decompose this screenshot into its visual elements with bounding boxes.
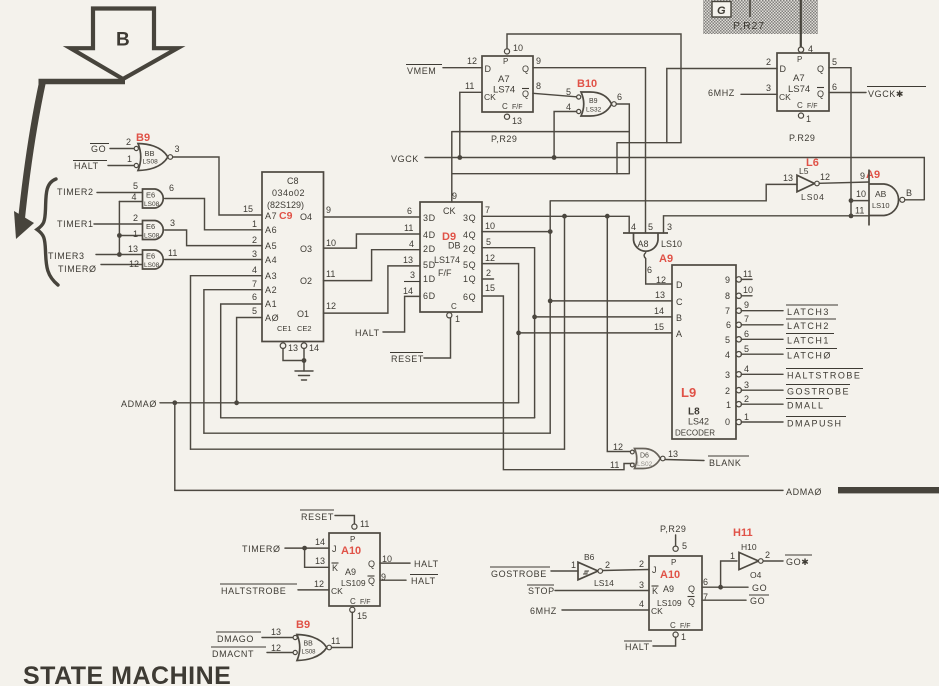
wire D6 out to BLANK bbox=[665, 460, 704, 461]
svg-text:O4: O4 bbox=[300, 212, 312, 222]
pin 13 output bubble D6 bbox=[661, 456, 666, 461]
svg-text:7: 7 bbox=[485, 205, 490, 215]
junction Q5/A9 pin10 bbox=[849, 198, 854, 203]
gate D6 (BLANK) bbox=[610, 442, 678, 470]
svg-text:6D: 6D bbox=[423, 291, 436, 301]
gate E6 #1 (LS08) TIMER2 bbox=[57, 181, 262, 230]
svg-text:LS08: LS08 bbox=[302, 650, 317, 656]
svg-text:P: P bbox=[350, 535, 355, 544]
svg-text:10: 10 bbox=[513, 43, 523, 53]
svg-text:LS10: LS10 bbox=[661, 239, 682, 249]
svg-text:HALT: HALT bbox=[411, 576, 436, 586]
pin 13 clear bubble A7 bbox=[504, 114, 509, 119]
svg-text:DECODER: DECODER bbox=[675, 429, 715, 438]
wire to P bbox=[675, 535, 677, 546]
pin 11 bubble D6 bbox=[630, 463, 634, 467]
svg-text:11: 11 bbox=[331, 636, 340, 646]
svg-text:B6: B6 bbox=[584, 552, 595, 562]
junction A9 pin11 bbox=[849, 214, 854, 219]
pin 13 bubble B9 bbox=[293, 635, 297, 639]
svg-text:E6: E6 bbox=[146, 252, 155, 261]
wire Q to GO bbox=[702, 586, 748, 588]
svg-text:14: 14 bbox=[654, 306, 664, 316]
svg-text:D6: D6 bbox=[640, 453, 649, 460]
svg-text:4: 4 bbox=[252, 265, 257, 275]
svg-text:A9: A9 bbox=[866, 169, 880, 181]
svg-text:TIMERØ: TIMERØ bbox=[242, 544, 281, 554]
svg-text:6: 6 bbox=[647, 265, 652, 275]
svg-text:P,R29: P,R29 bbox=[660, 524, 686, 534]
svg-text:14: 14 bbox=[315, 537, 325, 547]
svg-text:Q: Q bbox=[368, 576, 375, 586]
svg-text:D: D bbox=[485, 64, 492, 74]
svg-text:2: 2 bbox=[252, 235, 257, 245]
pin 1 clear bubble A7 right bbox=[798, 113, 803, 118]
svg-text:A1: A1 bbox=[265, 299, 277, 309]
svg-text:1: 1 bbox=[726, 400, 731, 410]
wire D9 1Q stub bbox=[482, 278, 494, 280]
svg-text:H10: H10 bbox=[741, 542, 757, 552]
svg-text:O3: O3 bbox=[300, 244, 312, 254]
svg-text:10: 10 bbox=[485, 221, 495, 231]
svg-text:3: 3 bbox=[170, 218, 175, 228]
pin 12 bubble B9 bbox=[293, 650, 297, 654]
junction VGCK/CK11 bbox=[457, 155, 462, 160]
svg-text:13: 13 bbox=[783, 173, 793, 183]
svg-text:2: 2 bbox=[133, 213, 138, 223]
svg-text:12: 12 bbox=[271, 643, 281, 653]
svg-text:F/F: F/F bbox=[438, 268, 452, 278]
svg-text:L5: L5 bbox=[799, 166, 809, 176]
svg-text:DMALL: DMALL bbox=[787, 401, 825, 411]
svg-text:P,R27: P,R27 bbox=[733, 20, 765, 32]
svg-text:B: B bbox=[906, 188, 912, 198]
wire right-A7 D feed bbox=[667, 69, 777, 143]
svg-text:Q: Q bbox=[368, 559, 375, 569]
svg-text:4: 4 bbox=[409, 239, 414, 249]
svg-text:GO✱: GO✱ bbox=[786, 557, 809, 567]
svg-text:TIMER3: TIMER3 bbox=[48, 251, 85, 261]
svg-text:9: 9 bbox=[326, 205, 331, 215]
junction 4Q/decoder C bbox=[548, 299, 553, 304]
wire D9 3Q to gates A8/A9 bbox=[482, 216, 629, 233]
svg-text:D: D bbox=[676, 280, 683, 290]
pin 3 output bubble B9 bbox=[168, 155, 173, 160]
svg-text:4: 4 bbox=[725, 350, 730, 360]
svg-text:DMAPUSH: DMAPUSH bbox=[787, 419, 843, 429]
svg-text:5: 5 bbox=[682, 541, 687, 551]
pin 2 bubble B9 bbox=[134, 146, 138, 150]
junction VGCK/B10 pin4 bbox=[552, 155, 557, 160]
junction A0/ADMA0 bbox=[234, 400, 239, 405]
svg-text:A7: A7 bbox=[265, 211, 277, 221]
wire Q6 to VGCK* bbox=[829, 92, 866, 94]
wire A7 Q8 to B10 pin5 bbox=[533, 93, 577, 97]
gate A9 (AB LS10) bbox=[855, 169, 912, 226]
wire E6#2 out to C8 A5 bbox=[165, 230, 262, 246]
svg-text:RESET: RESET bbox=[301, 512, 334, 522]
svg-text:CK: CK bbox=[331, 586, 343, 596]
svg-text:LATCH1: LATCH1 bbox=[787, 336, 830, 346]
wire bbox=[101, 264, 143, 266]
wire decoder B input bbox=[535, 316, 672, 318]
gate A8 (LS10) bbox=[623, 222, 682, 285]
wire 4Q net vertical to L5 input and A2 loop bbox=[550, 184, 797, 433]
svg-text:2: 2 bbox=[639, 559, 644, 569]
svg-text:10: 10 bbox=[743, 285, 753, 295]
svg-text:3: 3 bbox=[725, 370, 730, 380]
wire nest horizontal A3 row bbox=[191, 448, 565, 450]
svg-text:LS04: LS04 bbox=[801, 192, 825, 202]
svg-text:3: 3 bbox=[175, 144, 180, 154]
svg-text:4: 4 bbox=[631, 222, 636, 232]
inverter B6 (LS14) bbox=[571, 552, 614, 588]
wire E6#1 out to C8 A6 bbox=[165, 199, 262, 230]
svg-text:K: K bbox=[332, 563, 338, 573]
svg-text:2: 2 bbox=[486, 268, 491, 278]
wire up to H10 bbox=[721, 561, 737, 587]
svg-text:11: 11 bbox=[404, 223, 413, 233]
svg-text:1: 1 bbox=[681, 632, 686, 642]
svg-text:C: C bbox=[670, 621, 676, 630]
svg-text:2: 2 bbox=[765, 550, 770, 560]
svg-text:A: A bbox=[676, 329, 683, 339]
svg-text:5: 5 bbox=[832, 57, 837, 67]
svg-text:H11: H11 bbox=[733, 527, 753, 539]
svg-text:CK: CK bbox=[779, 92, 791, 102]
junction TIMER3 bbox=[117, 252, 122, 257]
svg-text:9: 9 bbox=[860, 171, 865, 181]
wire nest horizontal A2 row bbox=[204, 432, 550, 434]
wire C8 A2 loop bbox=[204, 290, 262, 434]
svg-text:LS08: LS08 bbox=[144, 201, 160, 208]
svg-text:VMEM: VMEM bbox=[407, 66, 436, 76]
svg-text:15: 15 bbox=[654, 322, 664, 332]
svg-text:11: 11 bbox=[743, 269, 752, 279]
svg-text:11: 11 bbox=[326, 269, 335, 279]
wire bbox=[97, 192, 143, 194]
wire A9 pin10 bbox=[851, 200, 869, 202]
svg-text:Q: Q bbox=[688, 597, 695, 607]
svg-text:CK: CK bbox=[484, 92, 496, 102]
svg-text:4D: 4D bbox=[423, 230, 436, 240]
svg-text:12: 12 bbox=[314, 579, 324, 589]
svg-text:HALT: HALT bbox=[74, 161, 99, 171]
svg-text:Q: Q bbox=[688, 584, 695, 594]
svg-text:3: 3 bbox=[252, 249, 257, 259]
svg-text:13: 13 bbox=[403, 255, 413, 265]
svg-text:LS08: LS08 bbox=[144, 262, 160, 269]
svg-text:LS02: LS02 bbox=[637, 461, 653, 468]
svg-text:L9: L9 bbox=[681, 385, 696, 400]
svg-text:VGCK✱: VGCK✱ bbox=[868, 89, 904, 99]
svg-text:2: 2 bbox=[744, 394, 749, 404]
wire D9 5Q to decoder A and ADMA0 bbox=[482, 264, 519, 403]
wire D9 6Q to D6 gate bbox=[482, 296, 634, 470]
svg-text:034o02: 034o02 bbox=[272, 188, 305, 198]
svg-text:14: 14 bbox=[309, 343, 319, 353]
svg-text:J: J bbox=[652, 565, 657, 575]
svg-text:5: 5 bbox=[725, 335, 730, 345]
svg-text:BB: BB bbox=[145, 149, 155, 158]
junction TIMER0/J-K bbox=[302, 546, 307, 551]
wire 6MHZ to CK bbox=[562, 609, 649, 611]
svg-text:13: 13 bbox=[512, 116, 522, 126]
svg-text:A9: A9 bbox=[345, 567, 356, 577]
svg-text:0: 0 bbox=[725, 417, 730, 427]
hex register D9 (LS174) bbox=[403, 191, 495, 324]
PROM C8 (82S129) bbox=[243, 172, 336, 342]
svg-text:10: 10 bbox=[326, 238, 336, 248]
svg-text:C8: C8 bbox=[287, 176, 299, 186]
pin 5 preset bubble JA10 bbox=[673, 546, 678, 551]
flip-flop JA10 bottom-right (A9 LS109) bbox=[639, 524, 708, 642]
svg-text:1: 1 bbox=[744, 412, 749, 422]
wire pullup to right A7 P bbox=[800, 0, 802, 47]
svg-text:5: 5 bbox=[133, 181, 138, 191]
svg-text:K: K bbox=[652, 586, 658, 596]
svg-text:A7: A7 bbox=[498, 74, 510, 85]
svg-text:A10: A10 bbox=[660, 569, 680, 581]
wire bbox=[110, 148, 134, 150]
svg-text:5: 5 bbox=[486, 237, 491, 247]
svg-text:15: 15 bbox=[485, 283, 495, 293]
svg-text:TIMER2: TIMER2 bbox=[57, 187, 94, 197]
svg-text:1: 1 bbox=[133, 229, 138, 239]
svg-text:Q: Q bbox=[817, 89, 824, 99]
svg-text:2D: 2D bbox=[423, 244, 436, 254]
svg-text:CK: CK bbox=[651, 606, 663, 616]
wire E6#3 out to C8 A4 bbox=[165, 259, 262, 261]
svg-text:ADMAØ: ADMAØ bbox=[121, 399, 157, 409]
svg-text:12: 12 bbox=[326, 301, 336, 311]
pin 4 preset bubble A7 right bbox=[798, 47, 803, 52]
wire Qbar to HALTbar bbox=[380, 579, 406, 581]
svg-text:4: 4 bbox=[639, 599, 644, 609]
gate B10 (B9 LS32) bbox=[566, 78, 622, 116]
svg-text:3: 3 bbox=[410, 270, 415, 280]
svg-text:STOP: STOP bbox=[528, 586, 555, 596]
wire Q to HALT bbox=[380, 562, 410, 564]
svg-text:F/F: F/F bbox=[512, 104, 523, 111]
svg-text:12: 12 bbox=[613, 442, 623, 452]
svg-text:8: 8 bbox=[536, 81, 541, 91]
svg-text:6: 6 bbox=[407, 206, 412, 216]
svg-text:4: 4 bbox=[132, 192, 137, 202]
svg-text:A5: A5 bbox=[265, 241, 277, 251]
thick border bracket bbox=[14, 82, 125, 240]
wire 6MHZ to CK bbox=[741, 93, 777, 95]
pin 1 bubble B9 bbox=[134, 163, 138, 167]
svg-text:LATCHØ: LATCHØ bbox=[787, 351, 832, 361]
gate E6 #2 (LS08) TIMER1 bbox=[57, 202, 262, 257]
svg-text:A9: A9 bbox=[663, 584, 674, 594]
svg-text:2: 2 bbox=[766, 57, 771, 67]
svg-text:3: 3 bbox=[667, 222, 672, 232]
svg-text:6: 6 bbox=[252, 292, 257, 302]
svg-text:HALT: HALT bbox=[355, 328, 380, 338]
svg-text:15: 15 bbox=[357, 611, 367, 621]
wire gate B9 out to C8 A7 bbox=[173, 157, 262, 215]
svg-text:E6: E6 bbox=[146, 222, 155, 231]
wire P10 pullup to top bbox=[507, 34, 681, 143]
wire bbox=[383, 296, 420, 332]
svg-text:HALT: HALT bbox=[414, 559, 439, 569]
svg-text:CE1: CE1 bbox=[277, 324, 292, 333]
svg-text:Q: Q bbox=[522, 64, 529, 74]
wire STOP to K bbox=[555, 590, 649, 592]
pin 2 output bubble H10 bbox=[759, 559, 764, 564]
wire L5 out to A9 pin9 bbox=[819, 182, 869, 183]
svg-text:GOSTROBE: GOSTROBE bbox=[787, 387, 850, 397]
svg-text:LS42: LS42 bbox=[688, 417, 709, 427]
svg-text:5: 5 bbox=[744, 344, 749, 354]
svg-text:9: 9 bbox=[744, 300, 749, 310]
wire A8 out to decoder D bbox=[644, 253, 672, 284]
svg-text:CK: CK bbox=[443, 206, 456, 216]
svg-text:7: 7 bbox=[725, 306, 730, 316]
svg-text:1D: 1D bbox=[423, 274, 436, 284]
wire D9 2Q to decoder B and A1 loop bbox=[482, 248, 535, 418]
svg-text:6MHZ: 6MHZ bbox=[708, 88, 735, 98]
svg-text:LS08: LS08 bbox=[143, 159, 159, 166]
wire H10 out to GO* bbox=[763, 560, 783, 562]
svg-text:C: C bbox=[502, 102, 508, 111]
svg-text:A4: A4 bbox=[265, 255, 277, 265]
wire x617 drop bbox=[616, 143, 618, 174]
svg-text:11: 11 bbox=[465, 81, 474, 91]
svg-text:4: 4 bbox=[566, 102, 571, 112]
svg-text:4: 4 bbox=[744, 364, 749, 374]
svg-text:12: 12 bbox=[467, 56, 477, 66]
wire C8 O2 to D9 2D bbox=[324, 250, 421, 281]
svg-text:14: 14 bbox=[403, 286, 413, 296]
svg-text:9: 9 bbox=[725, 275, 730, 285]
svg-text:F/F: F/F bbox=[360, 599, 371, 606]
wire TIMER0 to J bbox=[285, 547, 329, 549]
wire ADMA0 row bbox=[160, 402, 519, 404]
svg-text:O4: O4 bbox=[750, 570, 762, 580]
svg-text:D: D bbox=[780, 64, 787, 74]
svg-text:10: 10 bbox=[856, 189, 866, 199]
svg-text:8: 8 bbox=[725, 291, 730, 301]
pin 15 clear bubble A10 bbox=[350, 607, 355, 612]
svg-text:GO: GO bbox=[91, 144, 106, 154]
wire nest horizontal A1 row bbox=[221, 417, 535, 419]
wire pin1 bbox=[119, 235, 142, 237]
junction 5Q/decoder A bbox=[516, 331, 521, 336]
wire bbox=[267, 652, 293, 654]
svg-text:C: C bbox=[676, 297, 683, 307]
svg-text:AØ: AØ bbox=[265, 313, 279, 323]
svg-text:7: 7 bbox=[744, 314, 749, 324]
svg-text:HALT: HALT bbox=[625, 642, 650, 652]
svg-text:LS08: LS08 bbox=[144, 233, 160, 240]
wire 3Q loop down to A3 bbox=[564, 216, 566, 449]
wire VMEM to D bbox=[443, 67, 482, 69]
wire pin4 bbox=[119, 201, 142, 203]
wire C8 O4 to D9 3D bbox=[324, 216, 421, 218]
svg-text:HALTSTROBE: HALTSTROBE bbox=[221, 586, 286, 596]
svg-text:A3: A3 bbox=[265, 271, 277, 281]
timer group curly brace bbox=[37, 179, 58, 285]
junction 4Q net bbox=[548, 229, 553, 234]
junction CE2 bbox=[302, 358, 307, 363]
svg-text:13: 13 bbox=[128, 244, 138, 254]
svg-text:A10: A10 bbox=[341, 545, 361, 557]
wire C8 O1 to D9 5D bbox=[324, 266, 421, 313]
wire A7 CK11 to VGCK bbox=[460, 92, 482, 157]
svg-text:LS109: LS109 bbox=[341, 578, 366, 588]
svg-text:CE2: CE2 bbox=[297, 324, 312, 333]
svg-text:LATCH3: LATCH3 bbox=[787, 307, 830, 317]
svg-text:3: 3 bbox=[766, 83, 771, 93]
svg-text:1: 1 bbox=[252, 219, 257, 229]
wire CE1/CE2 to ground bbox=[283, 349, 304, 372]
svg-text:6: 6 bbox=[832, 82, 837, 92]
pin 14 CE2 bubble bbox=[301, 343, 307, 349]
wire crossbar y142 bbox=[617, 142, 681, 144]
svg-text:12: 12 bbox=[656, 275, 666, 285]
svg-text:13: 13 bbox=[655, 290, 665, 300]
svg-text:C: C bbox=[350, 597, 356, 606]
svg-text:12: 12 bbox=[485, 253, 495, 263]
svg-text:1: 1 bbox=[127, 154, 132, 164]
svg-text:12: 12 bbox=[129, 259, 139, 269]
wire D9 4Q bbox=[482, 231, 550, 233]
svg-text:RESET: RESET bbox=[391, 354, 424, 364]
svg-text:1Q: 1Q bbox=[463, 274, 476, 284]
svg-text:7: 7 bbox=[252, 279, 257, 289]
wire bbox=[96, 254, 143, 256]
wire bbox=[262, 637, 293, 639]
svg-text:E6: E6 bbox=[146, 191, 155, 200]
wire 3Q branch to D6 pin 12 bbox=[607, 216, 634, 451]
svg-text:6: 6 bbox=[744, 329, 749, 339]
decoder L9 (L8 LS42) bbox=[672, 265, 736, 439]
inverter L6 (L5 LS04) bbox=[783, 157, 830, 202]
svg-text:6: 6 bbox=[169, 183, 174, 193]
svg-text:Q: Q bbox=[522, 89, 529, 99]
svg-text:11: 11 bbox=[855, 206, 864, 216]
svg-text:TIMER1: TIMER1 bbox=[57, 219, 94, 229]
svg-text:STATE MACHINE: STATE MACHINE bbox=[23, 662, 231, 686]
svg-text:B9: B9 bbox=[589, 98, 598, 105]
pin 12 bubble D6 bbox=[630, 450, 634, 454]
svg-text:4Q: 4Q bbox=[463, 230, 476, 240]
svg-text:A9: A9 bbox=[659, 253, 673, 265]
svg-text:A8: A8 bbox=[638, 239, 649, 249]
svg-text:C: C bbox=[797, 101, 803, 110]
junction TIMER link bbox=[117, 233, 122, 238]
wire C8 A1 loop bbox=[221, 304, 262, 418]
svg-text:2: 2 bbox=[725, 386, 730, 396]
wire C8 O3 to D9 4D bbox=[324, 234, 421, 248]
svg-text:GOSTROBE: GOSTROBE bbox=[491, 569, 547, 579]
output bubble A9 node B bbox=[900, 197, 905, 202]
svg-text:(82S129): (82S129) bbox=[267, 200, 304, 210]
svg-text:5: 5 bbox=[566, 87, 571, 97]
pin 5 bubble B10 bbox=[577, 95, 581, 99]
gate B9 (BB LS08) top-left bbox=[73, 132, 262, 215]
svg-text:O2: O2 bbox=[300, 276, 312, 286]
svg-text:P: P bbox=[503, 57, 508, 66]
wire ADMA0 bottom loop bbox=[175, 403, 783, 491]
svg-text:6Q: 6Q bbox=[463, 292, 476, 302]
wire A7 Q9 to right A7 D / A8 pin5 bbox=[533, 68, 646, 233]
svg-text:11: 11 bbox=[360, 519, 369, 529]
svg-text:1: 1 bbox=[730, 551, 735, 561]
